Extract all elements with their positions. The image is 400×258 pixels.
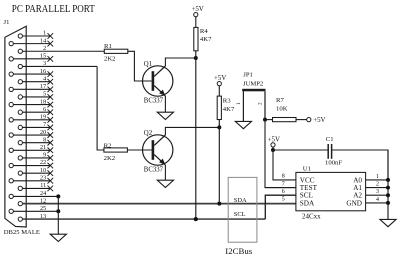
U1 pin 8 name VCC xyxy=(300,176,315,184)
junction GND / rail xyxy=(386,201,390,205)
svg-text:7: 7 xyxy=(282,181,285,187)
wire +5V to node xyxy=(272,147,274,150)
value 2K2 (R2) xyxy=(104,155,116,162)
svg-text:R7: R7 xyxy=(276,97,284,104)
J1 pin 25 xyxy=(9,206,60,213)
U1 pin 3 stub wire xyxy=(366,189,388,195)
svg-text:BC337: BC337 xyxy=(144,167,164,174)
svg-text:25: 25 xyxy=(40,206,46,212)
power +5V (VCC) xyxy=(268,136,280,147)
svg-text:Q1: Q1 xyxy=(144,61,152,68)
J1 pin 18 xyxy=(9,99,53,107)
svg-text:24: 24 xyxy=(40,191,46,197)
capacitor C1 xyxy=(328,144,331,159)
svg-text:23: 23 xyxy=(40,175,46,181)
JP1 pin 1 number xyxy=(236,102,242,105)
U1 pin 4 stub wire xyxy=(366,197,388,203)
title PC PARALLEL PORT xyxy=(12,4,96,15)
junction +5V / C1 / VCC xyxy=(271,148,275,152)
U1 pin 8 number xyxy=(282,174,285,180)
svg-text:R2: R2 xyxy=(104,142,112,149)
svg-text:22: 22 xyxy=(40,160,46,166)
label Q2 xyxy=(144,130,153,137)
op-amp U1 box xyxy=(296,172,366,210)
svg-text:6: 6 xyxy=(43,107,46,113)
svg-text:SCL: SCL xyxy=(234,211,246,218)
J1 pin 7 xyxy=(18,122,53,130)
wire +5V to R3 xyxy=(218,86,220,96)
wire right ground rail xyxy=(387,150,389,219)
resistor R7 xyxy=(273,118,297,122)
svg-text:1: 1 xyxy=(236,102,242,105)
junction R3 / SDA wire xyxy=(217,202,221,206)
junction A0 / rail xyxy=(386,178,390,182)
J1 pin 16 xyxy=(9,69,53,77)
J1 pin 9 xyxy=(18,153,53,161)
label JP1 xyxy=(243,71,253,78)
wire Q1 collector xyxy=(165,58,195,66)
svg-text:17: 17 xyxy=(40,84,46,90)
wire pin3 down to R2 xyxy=(97,67,104,151)
svg-text:10K: 10K xyxy=(276,105,288,112)
svg-text:R1: R1 xyxy=(104,43,112,50)
svg-text:21: 21 xyxy=(40,145,46,151)
svg-text:U1: U1 xyxy=(303,166,311,173)
J1 pin 22 xyxy=(9,160,53,168)
svg-text:SDA: SDA xyxy=(234,197,247,204)
label C1 xyxy=(326,136,334,143)
svg-text:4: 4 xyxy=(376,197,379,203)
power +5V (R4) xyxy=(191,6,203,17)
wire JP1 pin2 down to TEST xyxy=(265,120,296,188)
J1 pin 6 xyxy=(18,107,53,115)
U1 pin 6 number xyxy=(282,189,285,195)
svg-text:R4: R4 xyxy=(200,28,208,35)
transistor Q2 xyxy=(143,135,173,165)
J1 pin 19 xyxy=(9,115,53,123)
svg-text:1: 1 xyxy=(376,174,379,180)
J1 pin 5 xyxy=(18,92,53,100)
label R4 xyxy=(200,28,208,35)
J1 pin 13 xyxy=(18,214,265,221)
U1 pin 2 stub wire xyxy=(366,182,388,188)
svg-text:5: 5 xyxy=(43,92,46,98)
power +5V (R3) xyxy=(214,75,226,86)
value 24Cxx (U1) xyxy=(302,213,321,221)
svg-text:2K2: 2K2 xyxy=(104,155,116,162)
ground (JP1 pin1) xyxy=(235,121,251,128)
J1 pin 14 xyxy=(9,38,53,46)
wire Q2 emitter to ground xyxy=(164,165,166,180)
U1 pin 1 name A0 xyxy=(353,176,362,184)
svg-text:4K7: 4K7 xyxy=(223,106,235,113)
U1 pin 7 name TEST xyxy=(300,184,318,192)
J1 pin 20 xyxy=(9,130,53,138)
J1 pin 3 xyxy=(18,61,97,68)
svg-text:BC337: BC337 xyxy=(144,98,164,105)
svg-text:2: 2 xyxy=(43,46,46,52)
value JUMP2 (JP1) xyxy=(243,81,263,88)
label R7 xyxy=(276,97,284,104)
value 100nF (C1) xyxy=(325,160,342,167)
svg-text:+5V: +5V xyxy=(191,6,203,13)
svg-text:13: 13 xyxy=(40,214,46,220)
svg-text:6: 6 xyxy=(282,189,285,195)
U1 pin 5 name SDA xyxy=(300,199,315,207)
svg-text:3: 3 xyxy=(43,61,46,67)
svg-text:16: 16 xyxy=(40,69,46,75)
ground (parallel port) xyxy=(50,234,66,241)
wire Q1 emitter to ground xyxy=(164,96,166,112)
wire pins 24/25 to ground xyxy=(57,196,59,234)
svg-text:2: 2 xyxy=(258,102,264,105)
connector J1 name DB25 MALE xyxy=(4,229,40,236)
svg-text:15: 15 xyxy=(40,54,46,60)
connector J1 body outline xyxy=(5,26,26,227)
ground (U1 address pins) xyxy=(380,219,396,226)
resistor R4 xyxy=(194,27,198,50)
wire +5V to R4 xyxy=(195,17,197,28)
label R1 xyxy=(104,43,112,50)
value BC337 (Q1) xyxy=(144,98,164,105)
wire Q2 collector xyxy=(165,127,219,135)
wire node down to VCC pin xyxy=(273,150,296,180)
J1 pin 12 xyxy=(18,198,296,205)
ground (Q1 emitter) xyxy=(157,112,173,119)
net label SDA xyxy=(234,197,247,204)
wire node to C1 xyxy=(273,149,328,151)
junction A1 / rail xyxy=(386,186,390,190)
wire SCL step to U1 pin6 xyxy=(265,195,296,219)
junction R4 vertical / SCL xyxy=(194,217,198,221)
J1 pin 8 xyxy=(18,137,53,145)
jumper JP1 xyxy=(242,89,265,122)
junction A2 / rail xyxy=(386,193,390,197)
power +5V (R7) xyxy=(307,117,326,124)
svg-text:R3: R3 xyxy=(223,98,231,105)
wire C1 to right rail xyxy=(332,150,388,180)
resistor R2 xyxy=(104,148,128,152)
svg-text:24Cxx: 24Cxx xyxy=(302,213,321,221)
junction Q1 collector / R4 xyxy=(194,56,198,60)
ground (Q2 emitter) xyxy=(157,180,173,187)
svg-text:100nF: 100nF xyxy=(325,160,342,167)
svg-text:18: 18 xyxy=(40,99,46,105)
JP1 pin 2 number xyxy=(258,102,264,105)
U1 pin 4 name GND xyxy=(346,199,362,207)
U1 pin 3 name A2 xyxy=(353,192,362,200)
svg-text:8: 8 xyxy=(282,174,285,180)
value 10K (R7) xyxy=(276,105,288,112)
J1 pin 10 xyxy=(18,168,53,176)
svg-text:7: 7 xyxy=(43,122,46,128)
label R2 xyxy=(104,142,112,149)
svg-text:8: 8 xyxy=(43,137,46,143)
value BC337 (Q2) xyxy=(144,167,164,174)
svg-text:10: 10 xyxy=(40,168,46,174)
svg-text:3: 3 xyxy=(376,189,379,195)
J1 pin 24 xyxy=(9,191,60,198)
J1 pin 4 xyxy=(18,76,53,84)
junction R4 / SCL wire xyxy=(194,217,198,221)
svg-text:5: 5 xyxy=(282,197,285,203)
net label SCL xyxy=(234,211,246,218)
value 4K7 (R3) xyxy=(223,106,235,113)
svg-text:JP1: JP1 xyxy=(243,71,253,78)
svg-text:GND: GND xyxy=(346,199,362,207)
svg-text:1: 1 xyxy=(43,31,46,37)
svg-text:14: 14 xyxy=(40,38,46,44)
U1 pin 5 number xyxy=(282,197,285,203)
wire R4 down to SCL xyxy=(195,51,197,219)
U1 pin 2 name A1 xyxy=(353,184,362,192)
J1 pin 23 xyxy=(9,175,53,183)
svg-text:+5V: +5V xyxy=(268,136,280,143)
svg-text:J1: J1 xyxy=(4,19,10,26)
U1 pin 6 name SCL xyxy=(300,192,313,200)
wire JP1 to R7 xyxy=(265,119,273,121)
J1 pin 17 xyxy=(9,84,53,92)
svg-text:20: 20 xyxy=(40,130,46,136)
svg-text:4: 4 xyxy=(43,76,46,82)
wire TEST stub xyxy=(265,187,296,189)
junction JP1 pin2 / R7 / TEST xyxy=(263,118,267,122)
label R3 xyxy=(223,98,231,105)
wire R1 to Q1 base xyxy=(128,51,152,81)
wire R2 to Q2 base xyxy=(127,149,151,151)
label I2CBus xyxy=(225,246,252,256)
svg-text:9: 9 xyxy=(43,153,46,159)
svg-text:+5V: +5V xyxy=(214,75,226,82)
J1 pin 2 xyxy=(18,46,104,53)
svg-text:+5V: +5V xyxy=(313,117,325,124)
J1 pin 21 xyxy=(9,145,53,153)
svg-text:2K2: 2K2 xyxy=(104,55,116,62)
resistor R3 xyxy=(217,96,221,119)
svg-text:I2CBus: I2CBus xyxy=(225,246,252,256)
resistor R1 xyxy=(104,49,128,53)
value 2K2 (R1) xyxy=(104,55,116,62)
svg-text:JUMP2: JUMP2 xyxy=(243,81,263,88)
svg-text:C1: C1 xyxy=(326,136,334,143)
transistor Q1 xyxy=(143,66,173,96)
J1 pin 15 xyxy=(9,54,53,62)
svg-text:PC PARALLEL PORT: PC PARALLEL PORT xyxy=(12,4,96,15)
svg-text:11: 11 xyxy=(40,183,46,189)
U1 pin 7 number xyxy=(282,181,285,187)
svg-text:Q2: Q2 xyxy=(144,130,153,137)
connector J1 label xyxy=(4,19,10,26)
svg-text:19: 19 xyxy=(40,115,46,121)
svg-text:SDA: SDA xyxy=(300,199,315,207)
value 4K7 (R4) xyxy=(200,36,212,43)
svg-text:12: 12 xyxy=(40,198,46,204)
svg-text:2: 2 xyxy=(376,182,379,188)
J1 pin 1 xyxy=(18,31,53,39)
label U1 xyxy=(303,166,311,173)
junction Q2 collector / R3 xyxy=(217,125,221,129)
J1 pin 11 xyxy=(18,183,53,191)
I2CBus box xyxy=(228,177,257,242)
label Q1 xyxy=(144,61,152,68)
svg-text:DB25 MALE: DB25 MALE xyxy=(4,229,40,236)
wire R3 down to SDA xyxy=(218,120,220,204)
wire R7 to +5V xyxy=(296,119,307,121)
svg-text:4K7: 4K7 xyxy=(200,36,212,43)
U1 pin 1 stub wire xyxy=(366,174,388,180)
